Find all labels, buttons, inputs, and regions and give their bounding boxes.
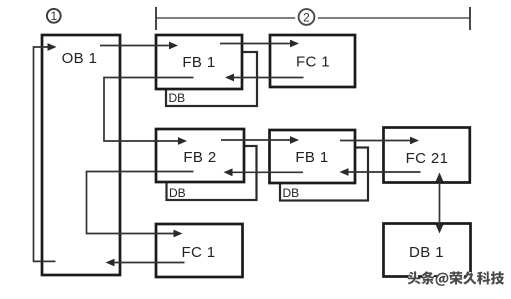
svg-text:DB 1: DB 1 xyxy=(409,244,444,261)
svg-text:FC 1: FC 1 xyxy=(181,244,215,261)
svg-text:FB 1: FB 1 xyxy=(295,149,328,166)
svg-text:FB 2: FB 2 xyxy=(183,149,216,166)
svg-text:OB 1: OB 1 xyxy=(62,50,98,67)
svg-text:DB: DB xyxy=(169,186,186,200)
svg-text:FB 1: FB 1 xyxy=(182,54,215,71)
svg-text:1: 1 xyxy=(50,9,57,23)
svg-text:2: 2 xyxy=(303,10,310,24)
svg-text:FC 1: FC 1 xyxy=(296,54,330,71)
svg-text:DB: DB xyxy=(283,186,300,200)
svg-text:FC 21: FC 21 xyxy=(406,150,449,167)
svg-text:DB: DB xyxy=(169,91,186,105)
